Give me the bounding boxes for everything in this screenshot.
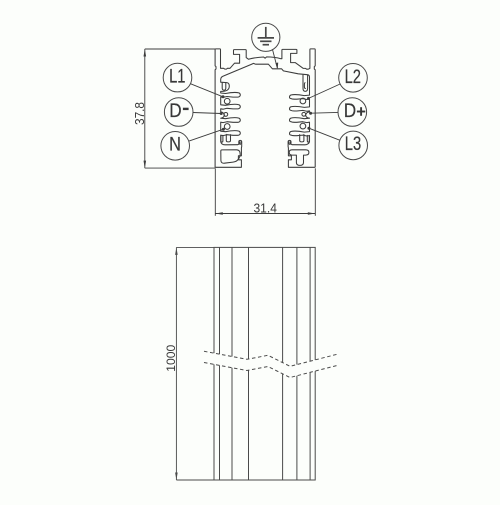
dimension 31.4: [215, 168, 315, 216]
svg-text:L3: L3: [345, 134, 361, 155]
svg-text:D: D: [344, 101, 356, 122]
leader dot L3: [307, 127, 310, 130]
conductor D+: [302, 112, 306, 116]
right earth-spring hook: [303, 75, 308, 91]
conductor L3: [300, 123, 306, 129]
label D-: [164, 98, 193, 127]
left earth-spring slot: [222, 83, 226, 90]
dimension 37.8: [132, 49, 215, 168]
label N: [161, 132, 190, 161]
right lip slot: [289, 142, 291, 145]
label D+: [338, 98, 367, 127]
leader line D+: [311, 111, 339, 114]
left foot pocket: [221, 150, 240, 163]
leader dot D-: [220, 112, 223, 115]
leader dot D+: [309, 112, 312, 115]
conductor L2: [300, 98, 306, 104]
label L2: [339, 64, 368, 93]
leader dot L2: [307, 97, 310, 100]
svg-text:1000: 1000: [164, 345, 178, 372]
svg-text:L2: L2: [345, 67, 361, 88]
label L3: [339, 131, 368, 160]
left foot channels: [221, 135, 223, 142]
earth leader arrow: [273, 50, 279, 70]
leader dot N: [222, 128, 225, 131]
leader line D-: [193, 113, 221, 114]
conductor N: [224, 124, 230, 130]
svg-text:37.8: 37.8: [132, 102, 147, 125]
break symbol: [204, 351, 337, 377]
track grooves: [220, 247, 311, 480]
leader line L3: [309, 128, 340, 140]
track front view outline: [214, 247, 315, 480]
leader dot L1: [222, 95, 225, 98]
right foot channels: [307, 135, 309, 142]
svg-text:L1: L1: [169, 67, 185, 88]
left lip slot: [239, 142, 241, 145]
track profile cross-section outline: [215, 49, 315, 167]
conductor D-: [224, 113, 228, 117]
svg-text:31.4: 31.4: [254, 200, 277, 215]
svg-text:D: D: [169, 101, 181, 122]
conductor L1: [224, 98, 230, 104]
right foot pocket: [289, 150, 309, 166]
leader line N: [189, 129, 224, 141]
leader line L1: [191, 84, 223, 97]
label L1: [163, 63, 192, 92]
leader line L2: [309, 84, 341, 98]
svg-text:N: N: [169, 135, 181, 156]
dimension 1000: [164, 247, 214, 480]
protective earth symbol: [252, 23, 280, 51]
